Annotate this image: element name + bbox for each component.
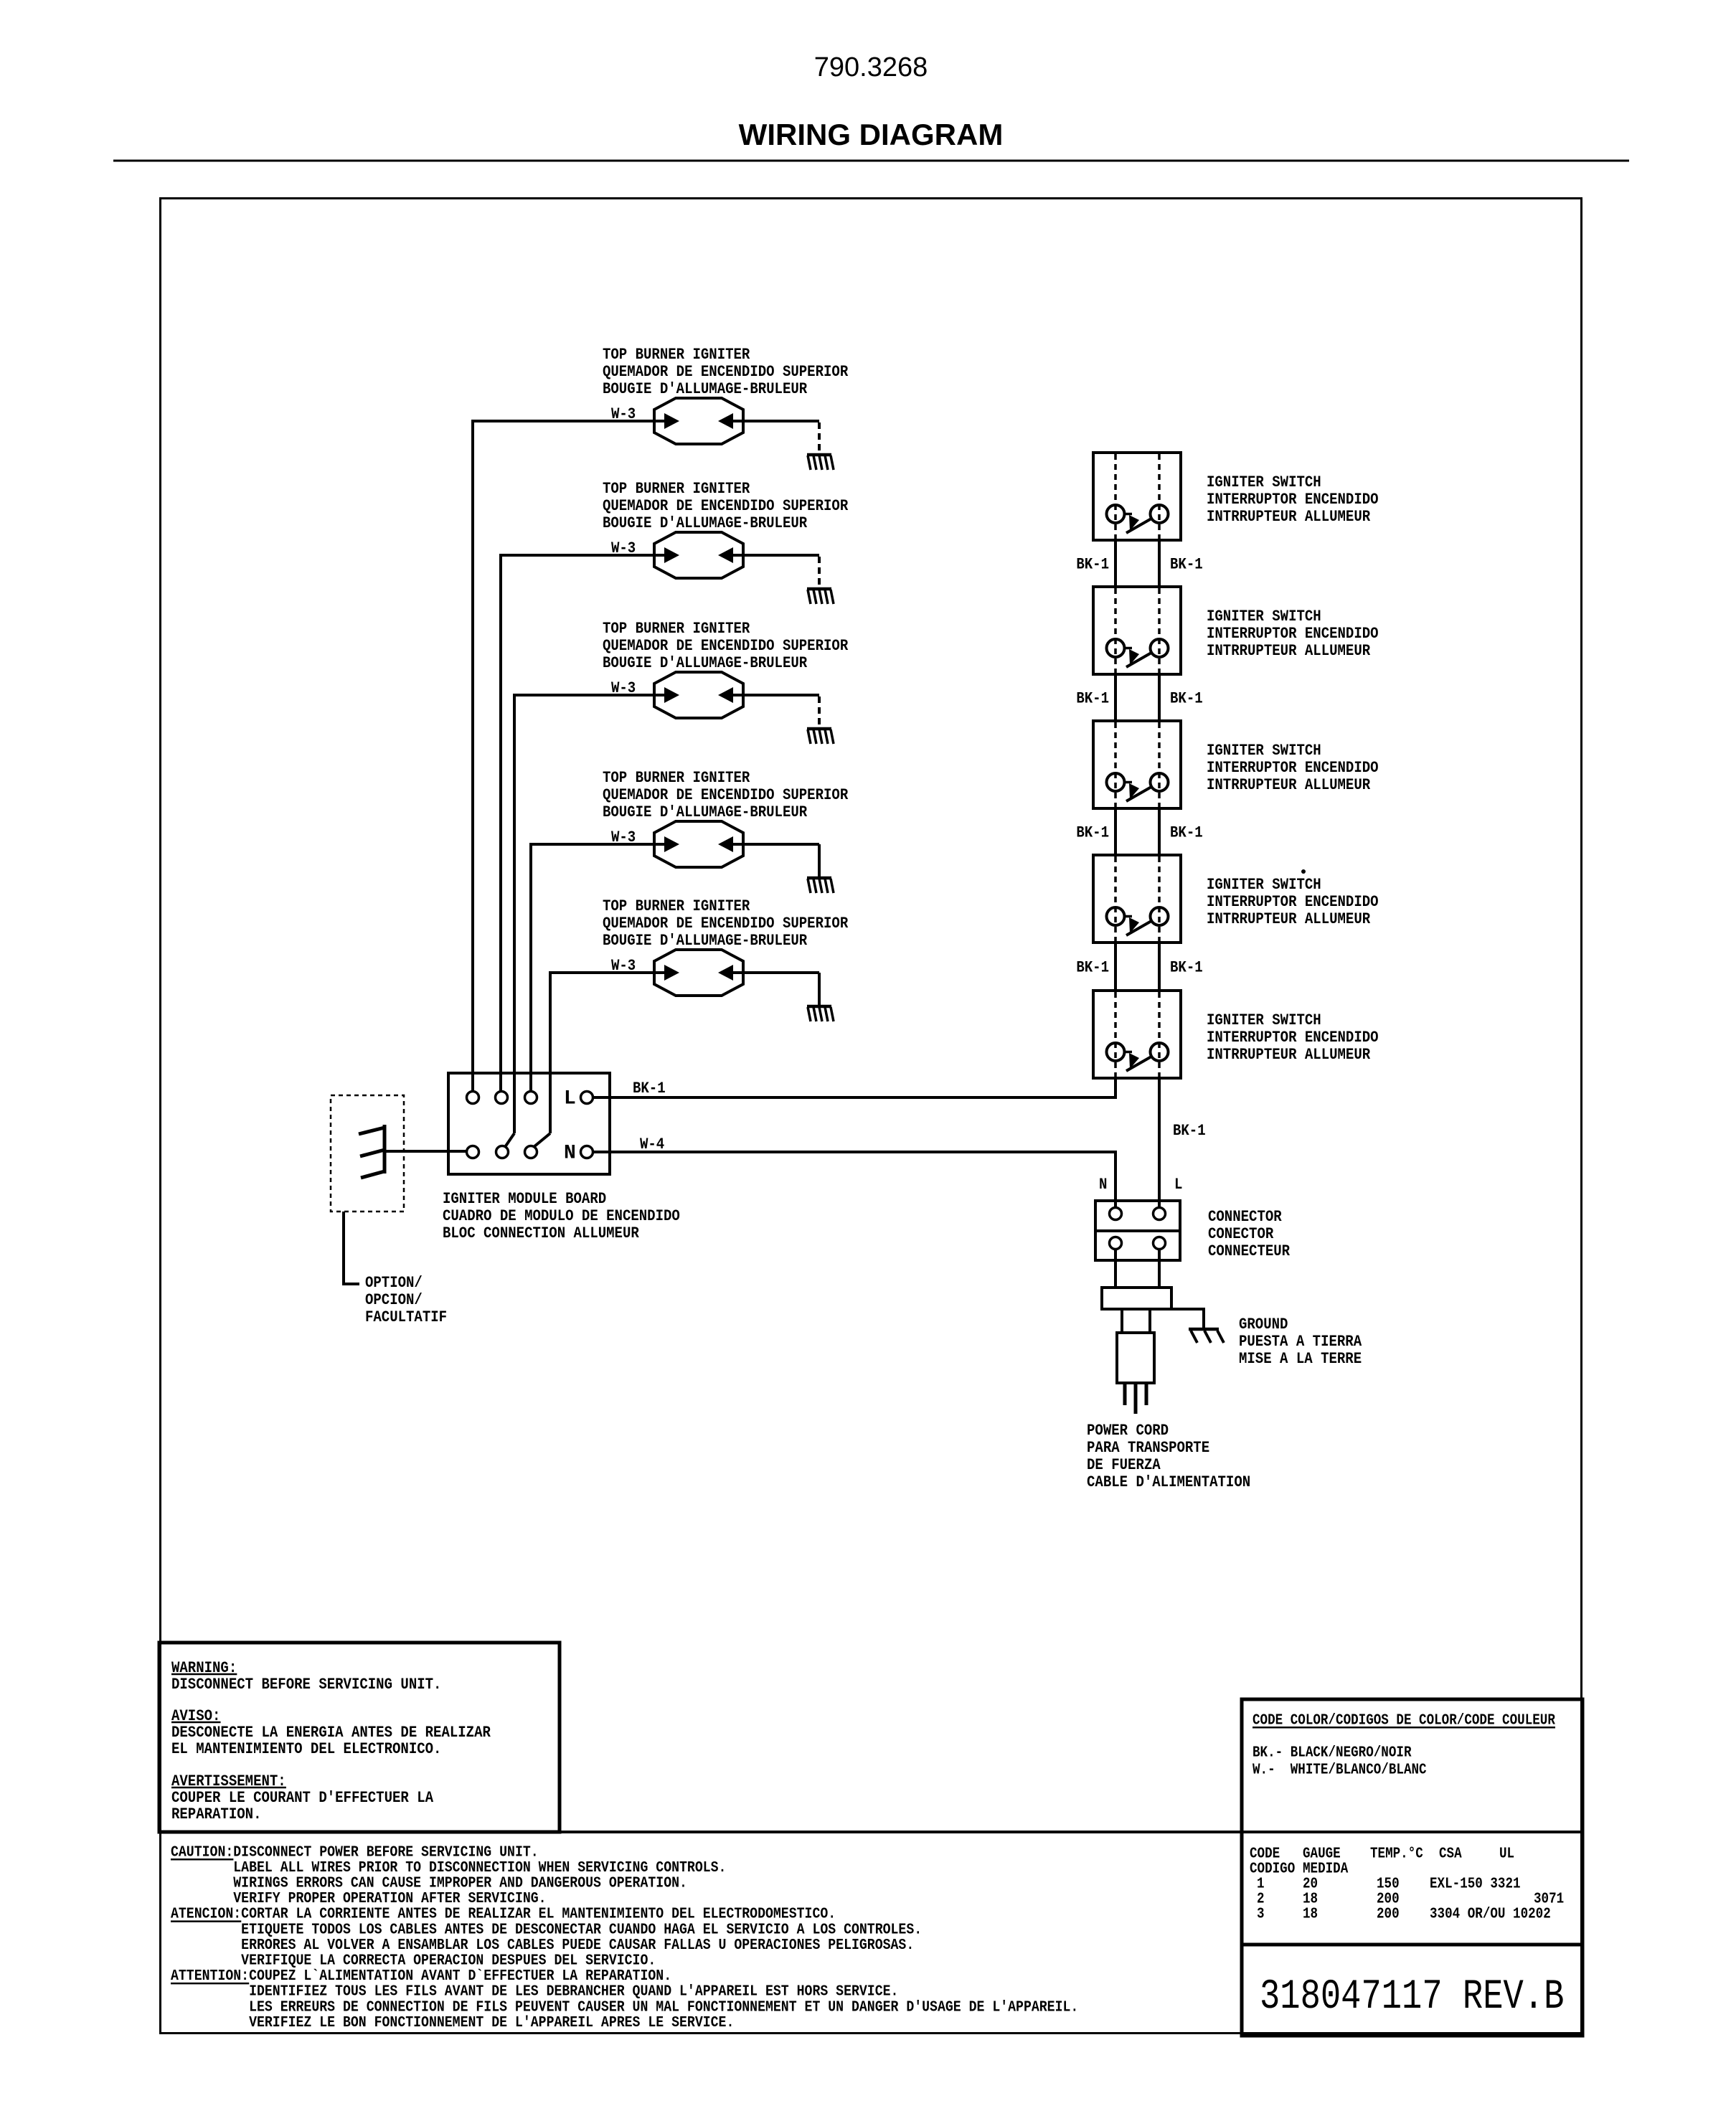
svg-text:3: 3 bbox=[1257, 1905, 1265, 1922]
svg-text:BK-1: BK-1 bbox=[1076, 690, 1109, 708]
svg-text:INTRRUPTEUR ALLUMEUR: INTRRUPTEUR ALLUMEUR bbox=[1207, 509, 1371, 526]
svg-text:IGNITER SWITCH: IGNITER SWITCH bbox=[1207, 1012, 1321, 1030]
svg-text:QUEMADOR DE ENCENDIDO SUPERIOR: QUEMADOR DE ENCENDIDO SUPERIOR bbox=[603, 638, 849, 656]
svg-text:790.3268: 790.3268 bbox=[814, 52, 928, 82]
svg-text:L: L bbox=[1174, 1176, 1182, 1194]
svg-text:CODE COLOR/CODIGOS DE COLOR/CO: CODE COLOR/CODIGOS DE COLOR/CODE COULEUR bbox=[1253, 1711, 1555, 1729]
svg-text:CONNECTOR: CONNECTOR bbox=[1208, 1209, 1282, 1227]
svg-text:INTERRUPTOR ENCENDIDO: INTERRUPTOR ENCENDIDO bbox=[1207, 625, 1379, 643]
svg-text:CABLE D'ALIMENTATION: CABLE D'ALIMENTATION bbox=[1087, 1474, 1250, 1492]
svg-text:TOP BURNER IGNITER: TOP BURNER IGNITER bbox=[603, 346, 750, 364]
svg-text:BK-1: BK-1 bbox=[1076, 959, 1109, 977]
svg-text:ATENCION:CORTAR LA CORRIENTE A: ATENCION:CORTAR LA CORRIENTE ANTES DE RE… bbox=[171, 1906, 836, 1923]
svg-text:VERIFY PROPER OPERATION AFTER: VERIFY PROPER OPERATION AFTER SERVICING. bbox=[171, 1890, 547, 1907]
svg-text:TOP BURNER IGNITER: TOP BURNER IGNITER bbox=[603, 770, 750, 788]
svg-text:318047117 REV.B: 318047117 REV.B bbox=[1260, 1973, 1564, 2021]
svg-text:DE FUERZA: DE FUERZA bbox=[1087, 1457, 1161, 1475]
svg-text:IDENTIFIEZ TOUS LES FILS AVANT: IDENTIFIEZ TOUS LES FILS AVANT DE LES DE… bbox=[171, 1983, 898, 2001]
svg-text:BK-1: BK-1 bbox=[1170, 959, 1203, 977]
svg-text:L: L bbox=[564, 1088, 576, 1110]
svg-text:BK-1: BK-1 bbox=[1076, 824, 1109, 842]
svg-text:BK-1: BK-1 bbox=[1170, 690, 1203, 708]
svg-text:EXL-150 3321: EXL-150 3321 bbox=[1430, 1875, 1521, 1892]
svg-text:IGNITER SWITCH: IGNITER SWITCH bbox=[1207, 474, 1321, 492]
svg-text:DISCONNECT BEFORE SERVICING UN: DISCONNECT BEFORE SERVICING UNIT. bbox=[171, 1676, 441, 1694]
svg-text:QUEMADOR DE ENCENDIDO SUPERIOR: QUEMADOR DE ENCENDIDO SUPERIOR bbox=[603, 787, 849, 805]
svg-text:INTRRUPTEUR ALLUMEUR: INTRRUPTEUR ALLUMEUR bbox=[1207, 777, 1371, 795]
svg-text:BK.- BLACK/NEGRO/NOIR: BK.- BLACK/NEGRO/NOIR bbox=[1253, 1744, 1412, 1761]
svg-text:N: N bbox=[1099, 1176, 1107, 1194]
svg-text:TEMP.°C: TEMP.°C bbox=[1370, 1845, 1423, 1862]
svg-text:ETIQUETE TODOS LOS CABLES ANTE: ETIQUETE TODOS LOS CABLES ANTES DE DESCO… bbox=[171, 1921, 922, 1938]
svg-text:TOP BURNER IGNITER: TOP BURNER IGNITER bbox=[603, 898, 750, 916]
svg-text:BOUGIE D'ALLUMAGE-BRULEUR: BOUGIE D'ALLUMAGE-BRULEUR bbox=[603, 804, 808, 822]
svg-text:200: 200 bbox=[1377, 1905, 1400, 1922]
svg-text:DESCONECTE LA ENERGIA ANTES DE: DESCONECTE LA ENERGIA ANTES DE REALIZAR bbox=[171, 1724, 491, 1742]
svg-text:IGNITER SWITCH: IGNITER SWITCH bbox=[1207, 877, 1321, 894]
svg-text:COUPER LE COURANT D'EFFECTUER: COUPER LE COURANT D'EFFECTUER LA bbox=[171, 1790, 434, 1808]
svg-text:INTERRUPTOR ENCENDIDO: INTERRUPTOR ENCENDIDO bbox=[1207, 491, 1379, 509]
svg-text:BK-1: BK-1 bbox=[1173, 1123, 1206, 1140]
svg-text:REPARATION.: REPARATION. bbox=[171, 1806, 261, 1824]
svg-text:N: N bbox=[564, 1143, 576, 1165]
svg-text:WIRING DIAGRAM: WIRING DIAGRAM bbox=[739, 118, 1004, 151]
svg-text:ERRORES AL VOLVER A ENSAMBLAR: ERRORES AL VOLVER A ENSAMBLAR LOS CABLES… bbox=[171, 1937, 914, 1954]
svg-text:QUEMADOR DE ENCENDIDO SUPERIOR: QUEMADOR DE ENCENDIDO SUPERIOR bbox=[603, 498, 849, 516]
svg-text:INTERRUPTOR ENCENDIDO: INTERRUPTOR ENCENDIDO bbox=[1207, 1029, 1379, 1047]
svg-text:INTERRUPTOR ENCENDIDO: INTERRUPTOR ENCENDIDO bbox=[1207, 760, 1379, 778]
svg-text:WIRINGS ERRORS CAN CAUSE IMPRO: WIRINGS ERRORS CAN CAUSE IMPROPER AND DA… bbox=[171, 1874, 687, 1892]
svg-text:INTERRUPTOR ENCENDIDO: INTERRUPTOR ENCENDIDO bbox=[1207, 894, 1379, 912]
svg-text:BOUGIE D'ALLUMAGE-BRULEUR: BOUGIE D'ALLUMAGE-BRULEUR bbox=[603, 655, 808, 673]
svg-text:EL MANTENIMIENTO DEL ELECTRONI: EL MANTENIMIENTO DEL ELECTRONICO. bbox=[171, 1741, 441, 1759]
svg-text:POWER CORD: POWER CORD bbox=[1087, 1422, 1169, 1440]
svg-text:VERIFIEZ LE BON FONCTIONNEMENT: VERIFIEZ LE BON FONCTIONNEMENT DE L'APPA… bbox=[171, 2014, 734, 2031]
svg-text:OPTION/: OPTION/ bbox=[365, 1275, 423, 1293]
svg-text:UL: UL bbox=[1499, 1845, 1514, 1862]
svg-text:IGNITER MODULE BOARD: IGNITER MODULE BOARD bbox=[443, 1191, 606, 1209]
svg-text:VERIFIQUE LA CORRECTA OPERACIO: VERIFIQUE LA CORRECTA OPERACION DESPUES … bbox=[171, 1952, 656, 1969]
svg-text:BK-1: BK-1 bbox=[1170, 824, 1203, 842]
svg-text:PARA TRANSPORTE: PARA TRANSPORTE bbox=[1087, 1440, 1209, 1458]
svg-text:BLOC CONNECTION ALLUMEUR: BLOC CONNECTION ALLUMEUR bbox=[443, 1225, 639, 1243]
svg-text:LES ERREURS DE CONNECTION DE F: LES ERREURS DE CONNECTION DE FILS PEUVEN… bbox=[171, 1998, 1078, 2016]
svg-text:18: 18 bbox=[1303, 1905, 1318, 1922]
svg-text:ATTENTION:COUPEZ L`ALIMENTATIO: ATTENTION:COUPEZ L`ALIMENTATION AVANT D`… bbox=[171, 1968, 671, 1985]
svg-text:QUEMADOR DE ENCENDIDO SUPERIOR: QUEMADOR DE ENCENDIDO SUPERIOR bbox=[603, 364, 849, 382]
svg-text:TOP BURNER IGNITER: TOP BURNER IGNITER bbox=[603, 481, 750, 499]
svg-text:GROUND: GROUND bbox=[1239, 1316, 1288, 1334]
svg-text:PUESTA A TIERRA: PUESTA A TIERRA bbox=[1239, 1333, 1362, 1351]
svg-text:CSA: CSA bbox=[1439, 1845, 1462, 1862]
svg-text:BK-1: BK-1 bbox=[1076, 556, 1109, 574]
svg-text:BK-1: BK-1 bbox=[633, 1080, 666, 1098]
svg-text:CONNECTEUR: CONNECTEUR bbox=[1208, 1243, 1291, 1261]
svg-text:LABEL ALL WIRES PRIOR TO DISCO: LABEL ALL WIRES PRIOR TO DISCONNECTION W… bbox=[171, 1859, 726, 1876]
svg-text:INTRRUPTEUR ALLUMEUR: INTRRUPTEUR ALLUMEUR bbox=[1207, 911, 1371, 929]
svg-text:INTRRUPTEUR ALLUMEUR: INTRRUPTEUR ALLUMEUR bbox=[1207, 1047, 1371, 1064]
svg-text:IGNITER SWITCH: IGNITER SWITCH bbox=[1207, 608, 1321, 626]
svg-text:CAUTION:DISCONNECT POWER BEFOR: CAUTION:DISCONNECT POWER BEFORE SERVICIN… bbox=[171, 1843, 539, 1861]
svg-text:OPCION/: OPCION/ bbox=[365, 1292, 423, 1310]
svg-text:CUADRO DE MODULO DE ENCENDIDO: CUADRO DE MODULO DE ENCENDIDO bbox=[443, 1208, 680, 1226]
svg-text:BK-1: BK-1 bbox=[1170, 556, 1203, 574]
svg-text:TOP BURNER IGNITER: TOP BURNER IGNITER bbox=[603, 620, 750, 638]
svg-text:INTRRUPTEUR ALLUMEUR: INTRRUPTEUR ALLUMEUR bbox=[1207, 643, 1371, 661]
svg-text:QUEMADOR DE ENCENDIDO SUPERIOR: QUEMADOR DE ENCENDIDO SUPERIOR bbox=[603, 915, 849, 933]
svg-text:CONECTOR: CONECTOR bbox=[1208, 1226, 1274, 1244]
svg-text:W.- WHITE/BLANCO/BLANC: W.- WHITE/BLANCO/BLANC bbox=[1253, 1761, 1427, 1778]
svg-text:3304 OR/OU 10202: 3304 OR/OU 10202 bbox=[1430, 1905, 1551, 1922]
svg-text:MISE A LA TERRE: MISE A LA TERRE bbox=[1239, 1351, 1362, 1369]
svg-text:IGNITER SWITCH: IGNITER SWITCH bbox=[1207, 742, 1321, 760]
svg-text:BOUGIE D'ALLUMAGE-BRULEUR: BOUGIE D'ALLUMAGE-BRULEUR bbox=[603, 381, 808, 399]
svg-text:BOUGIE D'ALLUMAGE-BRULEUR: BOUGIE D'ALLUMAGE-BRULEUR bbox=[603, 515, 808, 533]
svg-text:BOUGIE D'ALLUMAGE-BRULEUR: BOUGIE D'ALLUMAGE-BRULEUR bbox=[603, 932, 808, 950]
svg-text:FACULTATIF: FACULTATIF bbox=[365, 1309, 447, 1327]
